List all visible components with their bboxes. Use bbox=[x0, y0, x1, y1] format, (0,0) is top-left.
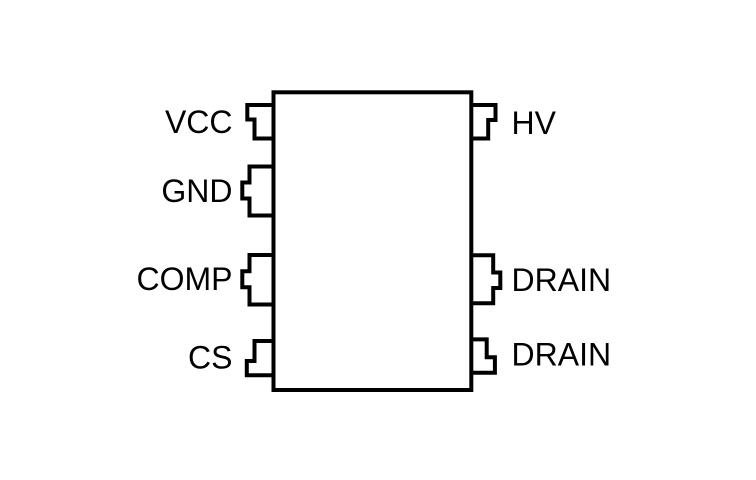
pin 6-7 DRAIN (upper) bbox=[471, 255, 500, 303]
svg-text:COMP: COMP bbox=[137, 261, 233, 297]
svg-text:DRAIN: DRAIN bbox=[512, 337, 612, 373]
svg-text:DRAIN: DRAIN bbox=[512, 262, 612, 298]
pin 4 CS bbox=[247, 341, 274, 375]
pin 2 GND bbox=[242, 167, 273, 216]
IC body U1 bbox=[274, 92, 472, 390]
svg-text:VCC: VCC bbox=[165, 104, 233, 140]
svg-text:HV: HV bbox=[512, 105, 557, 141]
pin 3 COMP bbox=[242, 255, 273, 305]
svg-text:GND: GND bbox=[161, 173, 232, 209]
svg-text:CS: CS bbox=[188, 340, 232, 376]
pin 8 HV bbox=[471, 105, 495, 139]
pin 1 VCC bbox=[247, 105, 273, 139]
pin 5 DRAIN (lower) bbox=[471, 339, 495, 372]
